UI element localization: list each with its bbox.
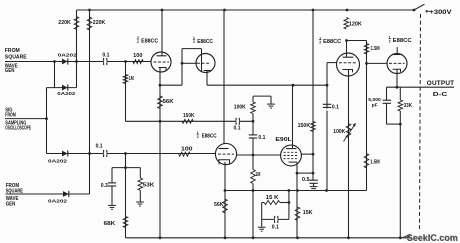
svg-text:2: 2 <box>389 40 391 44</box>
svg-text:2: 2 <box>197 135 199 139</box>
svg-text:E88CC: E88CC <box>197 39 213 45</box>
svg-text:OSCILLOSCOPE: OSCILLOSCOPE <box>5 126 31 132</box>
svg-text:E90L: E90L <box>275 137 292 143</box>
svg-text:100K: 100K <box>333 129 345 135</box>
svg-text:0.1: 0.1 <box>272 224 279 230</box>
svg-text:+300V: +300V <box>430 9 453 16</box>
svg-text:15 K: 15 K <box>266 195 279 201</box>
svg-text:1.5M: 1.5M <box>371 46 380 52</box>
svg-text:2: 2 <box>137 40 139 44</box>
svg-text:100: 100 <box>181 146 193 152</box>
svg-text:1.5M: 1.5M <box>370 159 380 165</box>
svg-text:OUTPUT: OUTPUT <box>427 80 455 87</box>
svg-text:0.1: 0.1 <box>234 125 241 131</box>
svg-text:pF: pF <box>372 102 378 108</box>
svg-text:1M: 1M <box>129 76 134 82</box>
svg-text:56K: 56K <box>163 99 174 105</box>
svg-text:120K: 120K <box>349 21 362 27</box>
svg-text:0.1: 0.1 <box>332 104 339 110</box>
svg-text:0.1: 0.1 <box>102 52 109 58</box>
svg-text:0.3: 0.3 <box>101 183 108 189</box>
svg-text:E88CC: E88CC <box>202 133 217 139</box>
svg-text:FROM: FROM <box>5 112 16 118</box>
svg-text:2: 2 <box>193 40 195 44</box>
svg-text:E88CC: E88CC <box>323 39 341 45</box>
svg-text:100K: 100K <box>234 105 246 111</box>
svg-text:SQUARE: SQUARE <box>5 54 27 60</box>
svg-text:68K: 68K <box>104 221 116 227</box>
svg-text:0A202: 0A202 <box>48 159 67 165</box>
svg-text:FROM: FROM <box>5 48 20 54</box>
svg-text:150K: 150K <box>183 113 195 119</box>
svg-text:0.1: 0.1 <box>96 143 103 149</box>
svg-text:5,000: 5,000 <box>368 97 381 103</box>
svg-text:1M: 1M <box>255 172 260 178</box>
svg-text:15K: 15K <box>303 210 313 216</box>
svg-text:0A202: 0A202 <box>58 53 77 59</box>
svg-text:SeekIC.com: SeekIC.com <box>406 232 457 242</box>
svg-text:150K: 150K <box>298 123 311 129</box>
svg-text:0.1: 0.1 <box>258 135 265 141</box>
svg-text:100: 100 <box>133 53 143 59</box>
svg-text:E88CC: E88CC <box>141 39 158 45</box>
svg-text:33K: 33K <box>404 103 413 109</box>
svg-text:0.5: 0.5 <box>302 177 310 183</box>
svg-text:56K: 56K <box>214 202 224 208</box>
svg-text:0A202: 0A202 <box>48 198 67 204</box>
svg-text:2: 2 <box>319 41 321 45</box>
svg-text:0A202: 0A202 <box>57 91 75 97</box>
svg-text:GEN: GEN <box>5 68 15 74</box>
svg-text:GEN: GEN <box>6 202 16 208</box>
svg-text:D-C: D-C <box>433 92 449 98</box>
svg-text:220K: 220K <box>93 20 106 26</box>
svg-text:E88CC: E88CC <box>393 38 412 44</box>
svg-text:53K: 53K <box>143 182 155 188</box>
svg-text:220K: 220K <box>58 20 71 26</box>
